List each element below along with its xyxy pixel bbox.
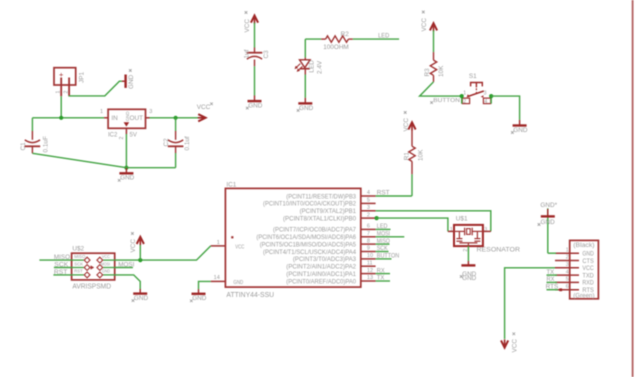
svg-text:GND: GND	[582, 251, 594, 258]
svg-text:GND: GND	[125, 111, 130, 122]
svg-text:U$2: U$2	[72, 245, 84, 252]
svg-text:AVRISPSMD: AVRISPSMD	[72, 284, 111, 291]
wire VCC to C3	[254, 23, 256, 48]
svg-text:1: 1	[56, 91, 62, 94]
node ground junction	[124, 166, 128, 170]
node rail-JP1 junction	[59, 116, 63, 120]
svg-text:IC2: IC2	[108, 133, 118, 139]
wire R1 to RST net	[411, 174, 413, 196]
svg-text:R3: R3	[424, 68, 431, 77]
wire C2 bottom to junction	[126, 167, 175, 169]
wire S1 to ground	[491, 96, 519, 120]
wire LED cathode to ground	[304, 75, 306, 98]
svg-text:GND: GND	[120, 175, 135, 182]
svg-text:9: 9	[367, 246, 370, 252]
svg-text:ATTINY44-SSU: ATTINY44-SSU	[226, 292, 274, 299]
ground (resonator)	[467, 261, 469, 265]
svg-text:CTS: CTS	[582, 258, 593, 265]
wire TX stub	[547, 274, 558, 276]
node S1 left junction	[460, 94, 464, 98]
pin 2 CTS	[555, 260, 579, 262]
wire MOSI stub (U$2)	[115, 267, 133, 269]
svg-text:(PCINT7/ICP/OC0B/ADC7)PA7: (PCINT7/ICP/OC0B/ADC7)PA7	[273, 228, 357, 234]
svg-text:U$1: U$1	[456, 216, 468, 223]
svg-text:0.1uf: 0.1uf	[184, 136, 191, 150]
svg-text:(PCINT9/XTAL2)PB1: (PCINT9/XTAL2)PB1	[300, 209, 357, 215]
wire RST net	[376, 195, 412, 197]
svg-text:VCC: VCC	[403, 118, 410, 132]
pin 3 PB1	[361, 210, 376, 212]
svg-text:4: 4	[484, 99, 487, 105]
svg-text:(PCINT2/AIN1/ADC2)PA2: (PCINT2/AIN1/ADC2)PA2	[286, 265, 356, 271]
svg-text:GND: GND	[192, 295, 207, 302]
svg-text:GND: GND	[541, 219, 556, 226]
svg-text:R1: R1	[404, 152, 411, 161]
wire R2 to LED net stub	[353, 38, 399, 40]
supply VCC (R3)	[430, 23, 437, 30]
connector JP1	[54, 68, 76, 85]
wire C3 to ground	[254, 66, 256, 95]
svg-text:1: 1	[566, 247, 569, 253]
svg-text:(PCINT1/AIN0/ADC1)PA1: (PCINT1/AIN0/ADC1)PA1	[286, 272, 356, 278]
ground (LED)	[304, 98, 306, 104]
svg-text:VCC: VCC	[244, 19, 251, 33]
svg-text:(PCINT8/XTAL1/CLKI)PB0: (PCINT8/XTAL1/CLKI)PB0	[283, 216, 357, 222]
svg-text:VCC: VCC	[421, 18, 428, 32]
wire regulator ground leg	[125, 134, 127, 168]
svg-text:(PCINT10/INT0/OC0A/CKOUT)PB2: (PCINT10/INT0/OC0A/CKOUT)PB2	[263, 202, 357, 208]
node PB0 junction	[375, 216, 379, 220]
wire PB1 to resonator pin3	[376, 211, 491, 232]
svg-text:RXD: RXD	[582, 280, 594, 287]
wire IC1 pin14 to ground	[199, 281, 211, 289]
pin 1 GND	[555, 252, 579, 254]
wire U$2 VCC to IC1 pin1	[115, 246, 211, 260]
LED1 2.4V	[304, 39, 306, 58]
svg-text:GND*: GND*	[540, 202, 557, 209]
wire button pins	[461, 96, 463, 104]
svg-text:2.4V: 2.4V	[316, 60, 323, 74]
svg-text:GND: GND	[128, 74, 135, 89]
svg-text:OUT: OUT	[130, 115, 144, 122]
pin 9 PA4	[361, 251, 376, 253]
wire LED anode to R2	[305, 38, 321, 40]
supply VCC (U$2)	[139, 244, 141, 260]
svg-text:13: 13	[367, 275, 373, 281]
svg-text:2: 2	[119, 137, 125, 140]
svg-text:3: 3	[484, 91, 487, 97]
svg-text:10K: 10K	[417, 149, 424, 161]
svg-text:2: 2	[63, 91, 69, 94]
pin 4 TXD	[555, 274, 579, 276]
svg-text:RESONATOR: RESONATOR	[477, 247, 521, 254]
supply VCC (down)	[501, 340, 508, 347]
svg-text:BUTTON: BUTTON	[433, 98, 460, 104]
capacitor C2 0.1uf	[175, 118, 177, 131]
wire FTDI GND up	[547, 208, 549, 253]
wire JP1 pin2 to ground	[69, 81, 122, 96]
wire U$2 GND to ground	[115, 275, 141, 289]
node S1 right junction	[489, 94, 493, 98]
ground (U$2)	[139, 289, 141, 294]
wire resonator pin2 to ground	[467, 246, 469, 261]
svg-text:SCK: SCK	[74, 261, 84, 267]
resistor R2 100OHM	[321, 38, 325, 40]
svg-text:VCC: VCC	[582, 265, 594, 272]
capacitor C3 1uf	[254, 48, 256, 53]
svg-text:7: 7	[367, 231, 370, 237]
svg-text:10: 10	[367, 253, 373, 259]
svg-text:MISO: MISO	[74, 254, 85, 260]
svg-text:LED: LED	[378, 33, 390, 40]
svg-text:1: 1	[217, 240, 220, 246]
svg-text:GND: GND	[513, 127, 528, 134]
svg-text:3: 3	[566, 262, 569, 268]
svg-text:LED: LED	[308, 60, 315, 73]
supply VCC (R1)	[408, 122, 415, 129]
svg-text:5: 5	[367, 198, 370, 204]
svg-text:5V: 5V	[130, 133, 137, 139]
node VCC junction (U$2)	[138, 258, 142, 262]
svg-text:2: 2	[367, 212, 370, 218]
svg-text:S1: S1	[469, 73, 477, 80]
svg-text:VCC: VCC	[235, 244, 244, 250]
svg-text:GND: GND	[248, 103, 263, 110]
svg-text:C2: C2	[163, 138, 170, 147]
svg-text:GND: GND	[462, 275, 477, 282]
pin 5 RXD	[555, 281, 579, 283]
resistor R3 10K	[433, 52, 435, 60]
svg-text:JP1: JP1	[79, 72, 86, 83]
FTDI header J1	[570, 240, 599, 298]
wire RTS stub	[547, 289, 559, 291]
svg-text:1: 1	[100, 109, 103, 115]
svg-text:(Black): (Black)	[573, 242, 594, 249]
pin 14 GND	[211, 280, 226, 282]
svg-text:(PCINT4/T1/SCL/USCK/ADC4)PA4: (PCINT4/T1/SCL/USCK/ADC4)PA4	[263, 250, 357, 256]
svg-text:C3: C3	[263, 50, 270, 59]
svg-text:3: 3	[149, 109, 152, 115]
svg-text:GND: GND	[233, 280, 243, 286]
svg-text:VCC: VCC	[130, 239, 137, 253]
svg-text:8: 8	[367, 238, 370, 244]
svg-text:R2: R2	[341, 31, 350, 38]
svg-text:(PCINT5/OC1B/MISO/DO/ADC5)PA5: (PCINT5/OC1B/MISO/DO/ADC5)PA5	[260, 242, 357, 248]
svg-text:VCC: VCC	[197, 104, 211, 111]
wire RST stub	[53, 274, 71, 276]
pin 7 PA6	[361, 236, 376, 238]
svg-text:11: 11	[367, 260, 373, 266]
pin 12 PA1	[361, 273, 376, 275]
pin 6 RTS	[555, 289, 579, 291]
node rail-C2 junction	[174, 116, 178, 120]
svg-text:(PCINT3/T0/ADC3)PA3: (PCINT3/T0/ADC3)PA3	[293, 257, 357, 263]
ground (S1)	[519, 120, 521, 126]
pin pads U$2 row	[72, 259, 84, 261]
capacitor C1 0.1uF	[31, 118, 33, 131]
ground (JP1)	[122, 80, 126, 82]
svg-text:4: 4	[566, 269, 569, 275]
pin 3 VCC	[555, 267, 579, 269]
pin 11 PA2	[361, 265, 376, 267]
svg-text:VCC: VCC	[512, 339, 519, 353]
wire JP1 pin1 to rail	[60, 96, 62, 118]
svg-text:100OHM: 100OHM	[323, 44, 349, 51]
wire MISO stub	[39, 259, 71, 261]
ground (IC1)	[198, 289, 200, 294]
svg-text:GND: GND	[102, 269, 110, 275]
pin 10 PA3	[361, 258, 376, 260]
svg-text:RST: RST	[74, 269, 83, 275]
svg-text:10K: 10K	[438, 65, 445, 77]
svg-text:4: 4	[367, 190, 370, 196]
wire regulator output rail	[150, 117, 199, 119]
resistor R1 10K	[411, 130, 413, 147]
svg-text:+: +	[59, 70, 64, 79]
svg-text:(PCINT0/AREF/ADC0)PA0: (PCINT0/AREF/ADC0)PA0	[286, 279, 356, 285]
svg-text:(PCINT6/OC1A/SDA/MOSI/ADC6)PA6: (PCINT6/OC1A/SDA/MOSI/ADC6)PA6	[256, 235, 356, 241]
svg-text:1uf: 1uf	[244, 49, 251, 58]
svg-text:GND: GND	[134, 295, 149, 302]
svg-text:2: 2	[463, 99, 466, 105]
pin 4 PB3	[361, 195, 376, 197]
svg-text:6: 6	[367, 224, 370, 230]
supply VCC (rail)	[198, 114, 205, 121]
pin 6 PA7	[361, 228, 376, 230]
wire PB0 to resonator pin1	[376, 218, 448, 231]
supply VCC (C3)	[251, 16, 258, 23]
svg-text:GND: GND	[299, 105, 314, 112]
svg-text:6: 6	[566, 284, 569, 290]
svg-text:C1: C1	[20, 142, 27, 151]
pin pads U$2 row	[72, 267, 84, 269]
wire FTDI VCC	[505, 268, 555, 339]
pin 1 VCC	[211, 245, 226, 247]
wire R3 to button	[420, 82, 462, 96]
svg-text:VCC: VCC	[102, 254, 111, 260]
pin pads U$2 row	[72, 274, 84, 276]
svg-text:0.1uF: 0.1uF	[43, 136, 50, 152]
wire C1 to ground junction	[32, 153, 126, 167]
svg-text:RTS: RTS	[582, 287, 593, 294]
wire input rail	[32, 117, 104, 119]
svg-text:12: 12	[367, 268, 373, 274]
svg-text:IN: IN	[111, 115, 118, 122]
svg-text:TXD: TXD	[582, 272, 594, 279]
svg-text:3: 3	[367, 205, 370, 211]
wire RX stub	[547, 281, 558, 283]
svg-text:14: 14	[214, 275, 220, 281]
pin 2 PB0	[361, 217, 376, 219]
svg-text:5: 5	[566, 277, 569, 283]
wire SCK stub	[54, 267, 72, 269]
ground (regulator)	[125, 168, 127, 174]
svg-text:(PCINT11/RESET/DW)PB3: (PCINT11/RESET/DW)PB3	[286, 194, 356, 200]
pin 5 PB2	[361, 202, 376, 204]
pin 13 PA0	[361, 280, 376, 282]
svg-text:2: 2	[566, 255, 569, 261]
pin 8 PA5	[361, 243, 376, 245]
ground (C3)	[254, 96, 256, 102]
